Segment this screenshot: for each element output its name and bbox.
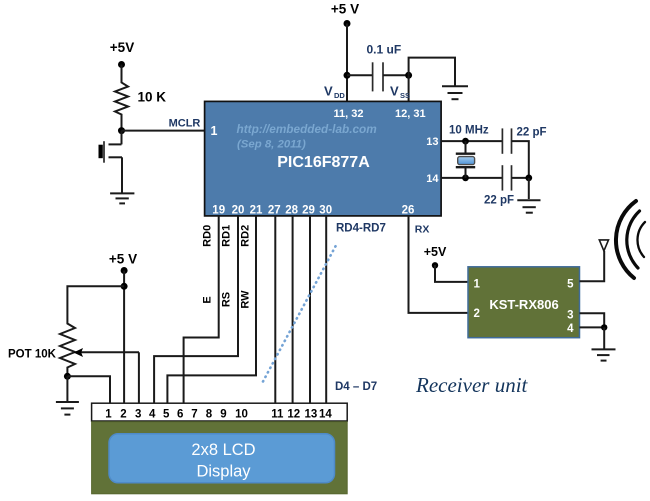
wire pot wiper to LCD pin 3 <box>138 352 140 403</box>
svg-text:30: 30 <box>319 204 332 216</box>
LCD pin header strip <box>92 403 348 421</box>
svg-text:2: 2 <box>120 409 126 421</box>
ground (VSS) <box>442 86 468 99</box>
radio waves arcs <box>616 201 645 278</box>
svg-text:27: 27 <box>268 204 281 216</box>
svg-text:+5V: +5V <box>110 40 134 55</box>
svg-text:11, 32: 11, 32 <box>334 108 364 120</box>
wire RD2/RW to LCD pin 5 <box>167 216 256 404</box>
wire junction to ground <box>528 178 530 199</box>
wire VSS to ground <box>409 58 455 86</box>
wire RD5 to LCD pin 12 <box>292 216 294 404</box>
wire junction to ground <box>603 327 605 349</box>
antenna ANT1 <box>599 240 608 251</box>
svg-text:22 pF: 22 pF <box>484 195 514 207</box>
wire +5V to receiver pin 1 <box>435 265 468 282</box>
svg-text:D4 – D7: D4 – D7 <box>335 381 377 393</box>
svg-text:13: 13 <box>426 136 438 148</box>
wire RD4 to LCD pin 11 <box>274 216 276 404</box>
svg-text:4: 4 <box>567 323 574 335</box>
wire receiver pin 4 to ground junction <box>580 326 605 328</box>
svg-text:V: V <box>324 84 333 99</box>
pushbutton S1 reset <box>99 131 123 163</box>
svg-text:14: 14 <box>319 409 332 421</box>
svg-text:14: 14 <box>426 173 439 185</box>
svg-text:RD1: RD1 <box>221 225 233 247</box>
svg-text:RW: RW <box>240 290 252 309</box>
svg-text:12: 12 <box>287 409 300 421</box>
ground (LCD contrast) <box>56 402 79 415</box>
svg-text:E: E <box>202 296 214 303</box>
svg-text:20: 20 <box>232 204 245 216</box>
label VSS <box>390 84 410 101</box>
wire pot bottom to LCD pin 1 <box>67 376 110 403</box>
wire pot bottom to ground <box>66 376 68 402</box>
svg-text:Receiver unit: Receiver unit <box>415 373 529 397</box>
svg-text:19: 19 <box>212 204 225 216</box>
svg-text:KST-RX806: KST-RX806 <box>489 297 558 312</box>
ground (reset button) <box>110 193 134 203</box>
svg-text:4: 4 <box>149 409 156 421</box>
svg-text:Display: Display <box>196 463 251 481</box>
bus marker dashed line <box>263 244 337 382</box>
svg-text:11: 11 <box>271 409 284 421</box>
svg-text:(Sep 8, 2011): (Sep 8, 2011) <box>237 139 306 151</box>
svg-text:21: 21 <box>250 204 263 216</box>
svg-text:V: V <box>390 84 399 99</box>
wire +5V to resistor <box>121 65 123 81</box>
wire VDD to capacitor <box>347 74 373 76</box>
wire +5V to VDD pin <box>346 24 348 102</box>
svg-text:http://embedded-lab.com: http://embedded-lab.com <box>237 122 377 136</box>
wire junction to potentiometer <box>67 286 124 321</box>
svg-text:RD0: RD0 <box>202 225 214 247</box>
svg-text:PIC16F877A: PIC16F877A <box>277 154 370 171</box>
potentiometer POT 10K <box>8 321 139 376</box>
node crystal ground junction <box>525 175 532 182</box>
microcontroller U1 PIC16F877A <box>205 101 442 216</box>
svg-text:9: 9 <box>220 409 226 421</box>
capacitor C1 0.1 uF <box>367 43 402 92</box>
wire receiver pin 3 to ground junction <box>580 313 605 327</box>
wire receiver pin 5 to antenna <box>580 251 605 281</box>
svg-text:22 pF: 22 pF <box>517 127 547 139</box>
svg-text:RD4-RD7: RD4-RD7 <box>336 223 386 235</box>
svg-text:29: 29 <box>302 204 315 216</box>
wire button to ground <box>121 157 123 193</box>
wire RD0/E to LCD pin 6 <box>184 216 219 404</box>
node VSS junction <box>405 72 412 79</box>
node pin13 junction <box>462 138 469 145</box>
wire MCLR to PIC pin 1 <box>122 130 205 132</box>
svg-text:10: 10 <box>235 409 248 421</box>
wire VSS to PIC <box>408 75 410 101</box>
svg-text:0.1 uF: 0.1 uF <box>367 43 402 57</box>
svg-text:10 MHz: 10 MHz <box>449 125 489 137</box>
svg-text:1: 1 <box>211 124 218 138</box>
capacitor C2 22 pF (top) <box>502 127 546 154</box>
node VDD junction <box>344 72 351 79</box>
ground (crystal) <box>517 200 540 213</box>
node +5V (MCLR pull-up supply) <box>110 40 134 68</box>
svg-text:3: 3 <box>135 409 141 421</box>
svg-text:3: 3 <box>567 310 573 322</box>
svg-text:7: 7 <box>191 409 197 421</box>
node +5 V (LCD supply) <box>109 252 137 275</box>
svg-text:28: 28 <box>285 204 298 216</box>
svg-text:1: 1 <box>105 409 112 421</box>
svg-text:12, 31: 12, 31 <box>395 108 426 120</box>
svg-text:+5V: +5V <box>424 245 447 259</box>
svg-text:5: 5 <box>163 409 170 421</box>
svg-text:5: 5 <box>567 279 574 291</box>
wire capacitor to VSS node <box>383 74 409 76</box>
label VDD <box>324 84 345 101</box>
LCD screen 2x8 <box>109 434 335 483</box>
svg-text:DD: DD <box>334 91 345 100</box>
wire PIC pin 26 RX to receiver pin 2 <box>409 216 469 313</box>
node pot bottom junction <box>64 373 71 380</box>
node receiver ground junction <box>601 324 607 330</box>
wire PIC pin 14 to crystal <box>441 177 502 179</box>
svg-text:1: 1 <box>474 279 481 291</box>
LCD module body <box>92 422 348 494</box>
svg-text:13: 13 <box>305 409 318 421</box>
capacitor C3 22 pF (bottom) <box>484 165 514 206</box>
node +5 V (VDD supply) <box>331 2 359 28</box>
receiver module U2 KST-RX806 <box>468 267 580 338</box>
svg-text:+5 V: +5 V <box>109 252 137 267</box>
svg-text:10 K: 10 K <box>138 90 167 105</box>
wire C2 to ground rail <box>512 141 529 178</box>
svg-text:RS: RS <box>221 292 233 307</box>
wire +5V to LCD pin 2 <box>123 271 125 404</box>
wire RD6 to LCD pin 13 <box>309 216 311 404</box>
svg-text:8: 8 <box>206 409 213 421</box>
wire PIC pin 13 to crystal <box>441 140 502 142</box>
node pot top junction <box>121 283 128 290</box>
svg-text:+5 V: +5 V <box>331 2 359 17</box>
crystal X1 10 MHz <box>449 125 489 178</box>
svg-text:RD2: RD2 <box>240 225 252 247</box>
node MCLR junction <box>118 127 125 134</box>
svg-text:26: 26 <box>402 204 415 216</box>
wire resistor to MCLR node <box>121 115 123 131</box>
svg-text:SS: SS <box>400 91 410 100</box>
ground (receiver) <box>592 349 616 360</box>
svg-text:2: 2 <box>474 308 480 320</box>
wire C3 to ground rail <box>512 177 529 179</box>
node pin14 junction <box>462 175 469 182</box>
svg-text:MCLR: MCLR <box>169 118 201 130</box>
wire RD1/RS to LCD pin 4 <box>154 216 238 404</box>
svg-text:2x8 LCD: 2x8 LCD <box>191 441 255 459</box>
svg-text:RX: RX <box>415 224 430 236</box>
svg-text:POT 10K: POT 10K <box>8 349 57 361</box>
wire RD7 to LCD pin 14 <box>325 216 327 404</box>
resistor R1 10K pull-up <box>115 80 166 118</box>
svg-text:6: 6 <box>177 409 183 421</box>
node +5V (receiver supply) <box>424 245 447 268</box>
